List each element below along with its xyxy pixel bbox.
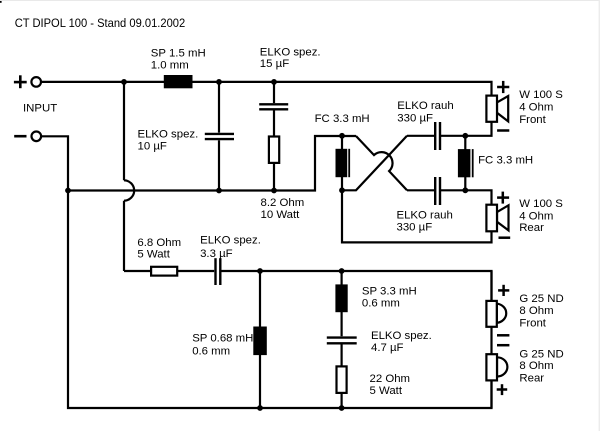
svg-text:15 µF: 15 µF — [260, 58, 289, 70]
svg-text:Rear: Rear — [519, 222, 544, 234]
svg-text:3.3 µF: 3.3 µF — [200, 248, 233, 260]
svg-text:5 Watt: 5 Watt — [370, 385, 403, 397]
svg-text:ELKO spez.: ELKO spez. — [138, 128, 199, 140]
svg-text:22 Ohm: 22 Ohm — [370, 373, 411, 385]
svg-text:FC 3.3 mH: FC 3.3 mH — [478, 154, 533, 166]
svg-text:8.2 Ohm: 8.2 Ohm — [261, 197, 305, 209]
svg-text:330 µF: 330 µF — [397, 112, 433, 124]
svg-text:5 Watt: 5 Watt — [137, 249, 170, 261]
svg-text:ELKO rauh: ELKO rauh — [397, 100, 453, 112]
svg-text:ELKO spez.: ELKO spez. — [200, 235, 261, 247]
svg-text:4 Ohm: 4 Ohm — [519, 210, 553, 222]
svg-text:G 25 ND: G 25 ND — [519, 348, 563, 360]
svg-text:W 100 S: W 100 S — [519, 198, 563, 210]
svg-text:10 Watt: 10 Watt — [261, 209, 301, 221]
svg-text:ELKO rauh: ELKO rauh — [397, 210, 453, 222]
svg-text:330 µF: 330 µF — [397, 221, 433, 233]
svg-text:10 µF: 10 µF — [138, 141, 167, 153]
svg-text:ELKO spez.: ELKO spez. — [260, 46, 321, 58]
svg-text:SP 0.68 mH: SP 0.68 mH — [192, 333, 253, 345]
svg-text:Rear: Rear — [519, 373, 544, 385]
svg-text:FC 3.3 mH: FC 3.3 mH — [315, 113, 370, 125]
svg-text:8 Ohm: 8 Ohm — [519, 360, 553, 372]
svg-text:Front: Front — [519, 114, 546, 126]
svg-text:W 100 S: W 100 S — [519, 89, 563, 101]
svg-text:G 25 ND: G 25 ND — [519, 293, 563, 305]
svg-text:ELKO spez.: ELKO spez. — [371, 330, 432, 342]
svg-text:8 Ohm: 8 Ohm — [519, 305, 553, 317]
svg-text:0.6 mm: 0.6 mm — [362, 298, 400, 310]
svg-text:4 Ohm: 4 Ohm — [519, 102, 553, 114]
svg-text:1.0 mm: 1.0 mm — [151, 60, 189, 72]
svg-text:0.6 mm: 0.6 mm — [192, 345, 230, 357]
svg-text:INPUT: INPUT — [23, 102, 57, 114]
svg-text:Front: Front — [519, 317, 546, 329]
svg-text:SP 1.5 mH: SP 1.5 mH — [151, 47, 206, 59]
svg-text:CT DIPOL 100 - Stand 09.01.200: CT DIPOL 100 - Stand 09.01.2002 — [15, 16, 186, 30]
svg-text:4.7 µF: 4.7 µF — [371, 342, 404, 354]
svg-text:6.8 Ohm: 6.8 Ohm — [137, 237, 181, 249]
svg-text:SP 3.3 mH: SP 3.3 mH — [362, 285, 417, 297]
